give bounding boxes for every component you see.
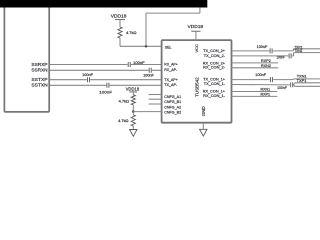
wire CNFG_A1 stub [149,94,162,96]
capacitor 100nF (TX2+) [270,48,272,53]
wire R1 to node [132,105,134,112]
wire RX_CON_2- to RXN2 [232,67,279,69]
wire cap fork to TXP1 [293,83,320,85]
host box (left, USB3 source) [4,2,49,112]
svg-text:RXP1: RXP1 [261,92,271,97]
svg-text:SSRXN: SSRXN [31,68,47,73]
svg-text:TXP1: TXP1 [297,78,307,83]
svg-text:TXN2: TXN2 [294,48,302,53]
svg-text:TX_CON_2+: TX_CON_2+ [203,49,226,53]
svg-text:SSTXN: SSTXN [31,83,47,88]
black redaction bar [0,0,207,8]
svg-text:4.7kΩ: 4.7kΩ [126,31,137,35]
wire cap to TXP2 [273,49,320,51]
capacitor 100nF on SSTXN line [107,83,109,88]
wire SSRXN to RX_AP- [49,69,161,71]
wire CNFG_B1 stub [149,98,162,100]
capacitor 100nF on SSTXP line [88,77,90,82]
wire GND pin [202,123,204,130]
node junction (divider mid-node) [132,110,135,113]
wire cap to TXN1 [273,78,320,81]
wire TX_CON_1- to cap [232,84,290,86]
svg-text:100nF: 100nF [133,61,145,65]
svg-text:TX_AP-: TX_AP- [164,83,178,87]
svg-text:CNFG_A2: CNFG_A2 [164,105,181,109]
wire TX_CON_1+ to cap [232,79,270,81]
svg-text:TX_CON_2-: TX_CON_2- [204,54,226,58]
svg-text:GND: GND [201,106,206,116]
capacitor 100nF (TX1+) [270,77,272,82]
resistor R2 4.7k (lower divider) [131,115,135,126]
capacitor 100nF on SSRXN line [149,68,151,73]
svg-text:100nF: 100nF [143,73,154,77]
wire cap fork lower stub [293,85,320,86]
svg-text:CNFG_A1: CNFG_A1 [164,95,181,99]
svg-text:100nF: 100nF [82,73,93,77]
svg-text:4.7kΩ: 4.7kΩ [118,119,129,123]
wire node to R2 [132,112,134,115]
svg-text:100nF: 100nF [277,56,286,60]
svg-text:SSRXP: SSRXP [31,62,47,67]
capacitor 100nF on SSRXP line [128,62,130,67]
svg-text:RXN2: RXN2 [261,63,271,68]
ground symbol (IC GND) [200,129,207,136]
wire cap to TXN2 [292,53,320,56]
svg-text:RX_CON_1-: RX_CON_1- [203,94,226,98]
svg-text:100nF: 100nF [255,73,267,77]
wire CNFG_A2 stub [149,103,162,105]
svg-text:VDD18: VDD18 [126,87,140,92]
wire RX_CON_1- to RXP1 [232,95,278,97]
wire TX_CON_2+ to cap [232,50,270,52]
wire node to CNFG_B2 [133,111,161,113]
ground symbol (divider) [130,130,137,137]
svg-text:VDD18: VDD18 [111,14,127,19]
svg-text:RX_AP+: RX_AP+ [164,63,178,67]
capacitor 100nF (TX2-) [289,53,291,58]
capacitor 100nF (TX1-) [291,82,293,87]
svg-text:CNFG_B2: CNFG_B2 [164,111,181,115]
svg-text:100nF: 100nF [99,90,113,94]
svg-text:VDD18: VDD18 [188,24,204,29]
wire R2 to ground [132,126,134,129]
node junction on SEL wire [145,45,148,48]
svg-text:SSTXP: SSTXP [31,77,47,82]
svg-text:4.7kΩ: 4.7kΩ [119,99,130,103]
wire SSTXP to TX_AP+ [49,79,161,81]
svg-text:RX_AP-: RX_AP- [164,68,178,72]
op-amp / IC U1 TUSB542 body [162,40,232,123]
resistor R1 4.7k (upper divider) [131,95,135,105]
wire VDD18 to resistor [119,20,121,27]
svg-text:TUSB542: TUSB542 [195,77,200,97]
svg-text:CNFG_B1: CNFG_B1 [164,100,181,104]
wire resistor to SEL [120,38,162,46]
wire SSRXP to RX_AP+ [49,64,161,66]
svg-text:RX_CON_1+: RX_CON_1+ [203,89,226,93]
svg-text:TX_CON_1+: TX_CON_1+ [203,78,226,82]
svg-text:TX_CON_1-: TX_CON_1- [204,82,226,86]
svg-text:100nF: 100nF [277,86,287,90]
svg-text:RX_CON_2+: RX_CON_2+ [203,61,226,65]
svg-text:100nF: 100nF [257,45,268,49]
wire RX_CON_2+ to RXP2 [232,62,279,64]
svg-text:SEL: SEL [165,44,172,49]
wire SEL riser to hidden net [146,7,200,46]
resistor R (4.7k pull-up on SEL) [118,27,122,38]
svg-text:VCC: VCC [194,44,199,53]
svg-text:RX_CON_2-: RX_CON_2- [203,66,226,70]
wire VDD18 to R1 [132,92,134,95]
wire VDD18 to VCC pin [195,31,197,40]
wire RX_CON_1+ to RXN1 [232,91,278,93]
svg-text:TX_AP+: TX_AP+ [164,78,178,82]
wire TX_CON_2- to cap [232,55,289,57]
wire SSTXN to TX_AP- [49,84,161,86]
